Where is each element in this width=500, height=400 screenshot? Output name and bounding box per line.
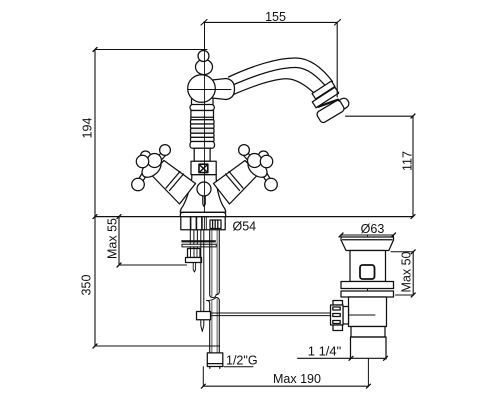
block screw square <box>199 164 208 172</box>
horizontal lever rod <box>211 312 340 314</box>
ball left <box>136 155 148 167</box>
aerator cap bulge <box>333 96 350 112</box>
ball top <box>160 145 171 156</box>
ball lower-right <box>265 178 278 191</box>
gear nut slot 3 <box>333 321 340 324</box>
arm to lower ball <box>139 173 147 182</box>
column collar A <box>190 105 214 111</box>
mid ball <box>196 59 213 74</box>
column bulge <box>191 124 215 128</box>
tick 194 top <box>93 48 97 52</box>
pop-up rod upper <box>200 231 202 312</box>
fitting feet <box>209 367 211 369</box>
column ring 3 <box>191 137 215 141</box>
main ball <box>188 75 216 103</box>
drain ring band 2 <box>341 291 394 297</box>
lever inside drain <box>349 314 376 316</box>
dimension 1 1/4 <box>298 357 387 359</box>
rod clamp <box>197 312 211 320</box>
svg-text:350: 350 <box>80 275 94 296</box>
base plinth <box>181 217 225 230</box>
dimension O63 <box>341 234 394 236</box>
drain lower body <box>349 297 387 327</box>
hub cap <box>248 154 262 168</box>
aerator band 2 <box>312 87 338 108</box>
washer bar 2 <box>182 244 216 247</box>
left handle assembly <box>132 145 171 191</box>
supply fitting <box>207 353 223 364</box>
ball behind <box>141 151 151 161</box>
underline 1/2"G <box>224 366 253 368</box>
gear nut slot 1 <box>333 307 340 310</box>
extension 155 right to spout <box>336 22 338 97</box>
svg-text:1 1/4": 1 1/4" <box>308 344 342 359</box>
top small ball <box>198 51 209 62</box>
ball behind <box>259 151 269 161</box>
base hatch lines <box>191 217 202 230</box>
drain tailpipe <box>351 337 387 359</box>
shank lines below base <box>189 231 191 249</box>
base fixing nut <box>210 220 221 229</box>
extension 350 bottom <box>95 345 220 347</box>
svg-text:Max 55: Max 55 <box>106 218 120 259</box>
overflow window <box>360 265 375 279</box>
faucet centerline <box>204 22 206 212</box>
hub flange <box>139 156 165 181</box>
spout tube top curve <box>229 58 333 82</box>
faucet body bell <box>180 175 225 213</box>
extension line left vertical (194/350) <box>94 50 96 347</box>
drain ring band 1 <box>341 282 394 289</box>
column top neck <box>192 99 214 105</box>
centerline over balls <box>204 22 206 49</box>
extension line top horizontal to faucet <box>95 49 207 51</box>
svg-text:Ø54: Ø54 <box>233 220 257 234</box>
right handle assembly <box>239 145 278 191</box>
column bulge B <box>190 142 215 149</box>
tick at countertop <box>93 215 97 219</box>
svg-text:117: 117 <box>401 151 415 171</box>
svg-text:Ø63: Ø63 <box>361 222 385 236</box>
aerator seam <box>318 100 338 107</box>
linkage gear nut body <box>331 305 344 325</box>
column ring 1 <box>191 120 215 124</box>
arm to top ball <box>244 153 254 162</box>
drain flange <box>341 237 394 251</box>
dimension 155 top <box>201 20 341 26</box>
tick 117 bottom <box>411 215 415 219</box>
left stem ring lines <box>166 172 180 189</box>
mounting nut <box>188 249 201 258</box>
pop-up knob rod <box>203 196 205 207</box>
extension from spout tip <box>346 115 414 117</box>
pipe break squiggle <box>207 295 217 301</box>
drain centerline <box>367 235 369 315</box>
right stem ring lines <box>229 172 243 189</box>
dimension Max 50 <box>391 251 414 253</box>
spout tube middle curve <box>230 67 329 89</box>
left handle stem <box>151 161 196 205</box>
aerator band 1 <box>312 81 335 99</box>
pop-up knob ball <box>197 182 211 196</box>
right handle stem <box>214 161 259 205</box>
linkage connector <box>343 307 349 325</box>
svg-text:194: 194 <box>81 118 95 139</box>
dimension Max 55 <box>118 217 120 265</box>
gear nut slot 2 <box>333 314 340 317</box>
dimension Max 190 <box>203 385 368 387</box>
mounting nut lip <box>186 258 202 263</box>
aerator body band 3 <box>316 99 346 124</box>
column neck <box>194 148 210 161</box>
ball equator line <box>188 89 231 91</box>
base top plate <box>180 212 225 216</box>
washer bar 1 (solid) <box>181 240 215 242</box>
ball top <box>239 145 250 156</box>
linkage gear nut bottom tab <box>333 325 343 331</box>
svg-text:Max 190: Max 190 <box>273 372 321 386</box>
tick 350 bottom <box>93 344 97 348</box>
spout joint barrel <box>212 79 235 100</box>
spout tube bottom curve <box>230 79 317 96</box>
supply pipe inner lines <box>211 231 213 297</box>
pop-up rod lower with tip <box>201 320 204 332</box>
drain upper body <box>350 251 386 282</box>
tick 117 top <box>411 114 415 118</box>
countertop line left of faucet <box>95 216 180 218</box>
ball right <box>260 155 272 167</box>
fitting bottom band <box>207 364 223 367</box>
column ring gray <box>191 128 215 133</box>
svg-text:Max 50: Max 50 <box>400 251 414 292</box>
column cylinder <box>191 111 214 120</box>
column ring 2 <box>191 133 215 137</box>
arm to lower ball <box>263 173 271 182</box>
dimension 117 right <box>412 116 414 217</box>
svg-text:1/2"G: 1/2"G <box>226 354 258 368</box>
rod below nut <box>193 263 195 273</box>
drain coupling <box>351 327 385 338</box>
supply pipe outer lines with break <box>210 231 213 298</box>
hub flange <box>245 156 271 181</box>
ball lower-left <box>132 178 145 191</box>
svg-text:155: 155 <box>265 10 286 24</box>
countertop line right of faucet <box>226 216 413 218</box>
hub cap <box>148 154 162 168</box>
linkage gear nut top tab <box>333 301 343 306</box>
valve block <box>191 161 216 174</box>
arm to top ball <box>156 153 166 162</box>
